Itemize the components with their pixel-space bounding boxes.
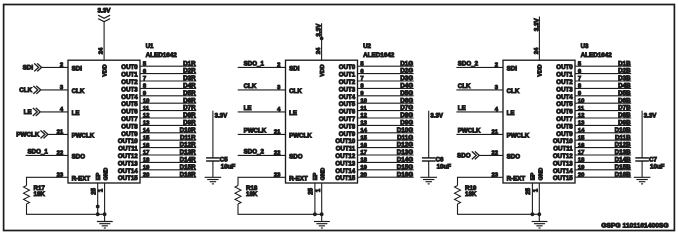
ground symbol below capacitor C7 xyxy=(634,177,651,184)
svg-text:GND: GND xyxy=(104,168,110,181)
net label PWCLK wire to pin 21 xyxy=(456,127,503,135)
wire pin 7 OUT2 to net D3G xyxy=(358,75,414,82)
IC U3 pin name texts xyxy=(507,64,574,182)
svg-text:U3: U3 xyxy=(581,43,589,50)
svg-text:D1G: D1G xyxy=(400,60,413,67)
svg-text:D14R: D14R xyxy=(180,157,196,164)
svg-text:VDD: VDD xyxy=(320,64,326,76)
svg-text:10: 10 xyxy=(143,98,150,104)
IC U1 ALED1642 body xyxy=(68,60,140,183)
svg-text:D7B: D7B xyxy=(618,105,631,112)
input port SDI with chevron, wire to pin 2 xyxy=(23,63,68,72)
svg-text:10: 10 xyxy=(578,98,585,104)
svg-text:24: 24 xyxy=(534,47,540,54)
svg-text:OUT12: OUT12 xyxy=(118,153,138,160)
svg-text:D9G: D9G xyxy=(400,120,413,127)
svg-text:OUT14: OUT14 xyxy=(118,168,138,175)
IC U2 ALED1642 body xyxy=(286,60,358,183)
svg-text:18: 18 xyxy=(143,158,150,164)
svg-text:SDO_1: SDO_1 xyxy=(244,60,265,67)
IC U3 GND pin 1 wire down xyxy=(533,183,539,222)
svg-text:3.3V: 3.3V xyxy=(430,113,443,120)
wire pin 15 OUT10 to net D11R xyxy=(140,134,196,141)
svg-text:PWCLK: PWCLK xyxy=(507,132,530,139)
svg-text:D3B: D3B xyxy=(618,75,631,82)
svg-text:OUT9: OUT9 xyxy=(339,131,356,138)
wire pin 13 OUT8 to net D9B xyxy=(575,120,631,127)
svg-text:20: 20 xyxy=(578,172,585,178)
IC U1 refdes and part number labels xyxy=(146,43,178,59)
ground symbol below IC U1 xyxy=(97,222,113,229)
svg-text:D8R: D8R xyxy=(183,112,196,119)
svg-text:GSPG 1101161400SG: GSPG 1101161400SG xyxy=(601,223,668,230)
svg-text:SDI: SDI xyxy=(507,65,518,72)
svg-text:ALED1642: ALED1642 xyxy=(581,52,613,59)
svg-text:CLK: CLK xyxy=(72,88,85,95)
svg-text:12: 12 xyxy=(578,113,585,119)
wire pin 10 OUT5 to net D6R xyxy=(140,97,196,104)
svg-text:D9B: D9B xyxy=(618,120,631,127)
svg-text:D12R: D12R xyxy=(180,142,196,149)
svg-text:D2G: D2G xyxy=(400,68,413,75)
svg-text:D6B: D6B xyxy=(618,97,631,104)
input port CLK with chevron, wire to pin 3 xyxy=(19,85,68,94)
svg-text:OUT11: OUT11 xyxy=(336,146,356,153)
wire pin 23 R-EXT to resistor R17 xyxy=(27,173,69,179)
svg-text:D13G: D13G xyxy=(397,149,413,156)
svg-text:18: 18 xyxy=(360,158,367,164)
svg-text:22: 22 xyxy=(57,151,64,157)
svg-text:D4B: D4B xyxy=(618,83,631,90)
svg-text:D3R: D3R xyxy=(183,75,196,82)
output port SDO with chevron, wire to pin 22 xyxy=(457,151,503,160)
svg-text:D5B: D5B xyxy=(618,90,631,97)
svg-text:10uF: 10uF xyxy=(221,164,236,171)
svg-text:10: 10 xyxy=(360,98,367,104)
wire pin 11 OUT6 to net D7B xyxy=(575,105,631,112)
svg-text:LE: LE xyxy=(244,105,252,112)
svg-text:11: 11 xyxy=(143,106,150,112)
wire pin 9 OUT4 to net D5G xyxy=(358,90,414,97)
svg-text:D12B: D12B xyxy=(615,142,631,149)
net label CLK wire to pin 3 xyxy=(456,83,503,91)
svg-text:14: 14 xyxy=(360,128,367,134)
wire pin 17 OUT12 to net D13G xyxy=(358,149,414,156)
svg-text:LE: LE xyxy=(24,109,32,116)
wire pin 14 OUT9 to net D10R xyxy=(140,127,196,134)
wire pin 20 OUT15 to net D16B xyxy=(575,171,631,178)
wire pin 5 OUT0 to net D1G xyxy=(358,60,414,67)
svg-text:SDI: SDI xyxy=(72,65,83,72)
svg-text:SDO_2: SDO_2 xyxy=(458,60,479,67)
wire pin 12 OUT7 to net D8B xyxy=(575,112,631,119)
svg-text:D15B: D15B xyxy=(615,164,631,171)
svg-text:D10R: D10R xyxy=(180,127,196,134)
svg-text:OUT13: OUT13 xyxy=(553,160,573,167)
net label LE wire to pin 4 xyxy=(456,105,503,113)
IC U3 refdes and part number labels xyxy=(581,43,613,59)
svg-text:D10G: D10G xyxy=(397,127,413,134)
svg-text:OUT6: OUT6 xyxy=(121,109,138,116)
svg-text:3.3V: 3.3V xyxy=(98,7,112,14)
svg-text:25: 25 xyxy=(526,187,532,194)
wire pin 8 OUT3 to net D4B xyxy=(575,83,631,90)
svg-text:R-EXT: R-EXT xyxy=(72,175,91,182)
svg-text:D8B: D8B xyxy=(618,112,631,119)
wire pin 18 OUT13 to net D14R xyxy=(140,157,196,164)
wire pin 14 OUT9 to net D10G xyxy=(358,127,414,134)
wire pin 5 OUT0 to net D1R xyxy=(140,60,196,67)
svg-text:D11G: D11G xyxy=(397,134,413,141)
wire pin 13 OUT8 to net D9G xyxy=(358,120,414,127)
svg-text:D8G: D8G xyxy=(400,112,413,119)
svg-text:SDO_2: SDO_2 xyxy=(244,148,265,155)
svg-text:12: 12 xyxy=(360,113,367,119)
svg-text:1: 1 xyxy=(533,188,539,192)
svg-text:14: 14 xyxy=(143,128,150,134)
svg-text:D7G: D7G xyxy=(400,105,413,112)
svg-text:PWCLK: PWCLK xyxy=(289,132,312,139)
svg-text:10uF: 10uF xyxy=(437,164,452,171)
svg-text:PWCLK: PWCLK xyxy=(458,127,481,134)
svg-text:R-EXT: R-EXT xyxy=(289,175,308,182)
svg-text:11: 11 xyxy=(360,106,367,112)
capacitor C5 10uF xyxy=(206,111,235,178)
svg-text:OUT3: OUT3 xyxy=(121,86,138,93)
svg-text:10uF: 10uF xyxy=(650,164,665,171)
IC U2 GND pin 1 wire down xyxy=(316,183,322,222)
svg-text:OUT12: OUT12 xyxy=(553,153,573,160)
svg-text:D6R: D6R xyxy=(183,97,196,104)
svg-text:OUT8: OUT8 xyxy=(339,123,356,130)
svg-text:OUT10: OUT10 xyxy=(118,138,138,145)
junction GND wire to ground rail xyxy=(537,212,541,216)
svg-text:PWCLK: PWCLK xyxy=(16,132,40,139)
svg-text:VDD: VDD xyxy=(538,64,544,76)
svg-text:OUT7: OUT7 xyxy=(121,116,138,123)
svg-text:23: 23 xyxy=(491,173,498,179)
svg-text:SDO: SDO xyxy=(289,153,303,160)
svg-text:EP: EP xyxy=(531,173,537,181)
svg-text:16: 16 xyxy=(143,143,150,149)
svg-text:16: 16 xyxy=(360,143,367,149)
svg-text:D5R: D5R xyxy=(183,90,196,97)
svg-text:D2R: D2R xyxy=(183,68,196,75)
IC U1 GND pin 1 wire down xyxy=(99,183,105,222)
svg-text:OUT11: OUT11 xyxy=(118,146,138,153)
net label SDO_1 wire to pin 2 xyxy=(238,60,286,68)
svg-text:D7R: D7R xyxy=(183,105,196,112)
svg-text:D9R: D9R xyxy=(183,120,196,127)
svg-text:OUT0: OUT0 xyxy=(121,64,138,71)
svg-text:OUT2: OUT2 xyxy=(339,79,356,86)
svg-text:OUT5: OUT5 xyxy=(556,101,573,108)
wire pin 18 OUT13 to net D14G xyxy=(358,157,414,164)
svg-text:16: 16 xyxy=(578,143,585,149)
svg-text:23: 23 xyxy=(57,173,64,179)
svg-text:OUT14: OUT14 xyxy=(335,168,355,175)
svg-text:D11B: D11B xyxy=(615,134,631,141)
junction on EP wire xyxy=(96,205,100,209)
svg-text:20: 20 xyxy=(143,172,150,178)
svg-text:OUT10: OUT10 xyxy=(553,138,573,145)
svg-text:17: 17 xyxy=(360,150,367,156)
junction EP wire to ground rail xyxy=(313,212,317,216)
ground symbol below IC U3 xyxy=(532,222,548,229)
wire pin 8 OUT3 to net D4G xyxy=(358,83,414,90)
svg-text:PWCLK: PWCLK xyxy=(72,132,95,139)
capacitor C7 10uF xyxy=(635,111,664,178)
svg-text:OUT12: OUT12 xyxy=(335,153,355,160)
svg-text:D13B: D13B xyxy=(615,149,631,156)
IC U2 EP pin 25 wire down xyxy=(309,183,315,214)
svg-text:EP: EP xyxy=(96,173,102,181)
svg-text:LE: LE xyxy=(507,110,515,117)
svg-text:13: 13 xyxy=(578,121,585,127)
wire pin 12 OUT7 to net D8G xyxy=(358,112,414,119)
ground symbol below capacitor C5 xyxy=(205,177,222,184)
wire pin 9 OUT4 to net D5B xyxy=(575,90,631,97)
ground symbol below capacitor C6 xyxy=(420,177,437,184)
svg-text:GND: GND xyxy=(321,168,327,181)
wire pin 16 OUT11 to net D12B xyxy=(575,142,631,149)
svg-text:R-EXT: R-EXT xyxy=(507,175,526,182)
svg-text:18K: 18K xyxy=(34,191,46,198)
wire pin 10 OUT5 to net D6B xyxy=(575,97,631,104)
svg-text:OUT1: OUT1 xyxy=(556,72,573,79)
wire pin 5 OUT0 to net D1B xyxy=(575,60,631,67)
svg-text:25: 25 xyxy=(91,187,97,194)
svg-text:OUT7: OUT7 xyxy=(339,116,356,123)
IC U2 refdes and part number labels xyxy=(363,43,395,59)
svg-text:SDI: SDI xyxy=(23,65,34,72)
svg-text:13: 13 xyxy=(360,121,367,127)
wire R17 bottom to ground junction xyxy=(26,213,105,215)
net label SDO_2 wire to pin 22 xyxy=(238,148,286,156)
svg-text:CLK: CLK xyxy=(507,88,520,95)
svg-text:OUT2: OUT2 xyxy=(121,79,138,86)
svg-text:24: 24 xyxy=(316,47,322,54)
wire pin 11 OUT6 to net D7R xyxy=(140,105,196,112)
wire pin 17 OUT12 to net D13R xyxy=(140,149,196,156)
capacitor C6 10uF xyxy=(422,111,451,178)
junction GND wire to ground rail xyxy=(320,212,324,216)
svg-text:D14B: D14B xyxy=(615,157,631,164)
wire R18 bottom to ground junction xyxy=(238,213,322,215)
svg-text:11: 11 xyxy=(578,106,585,112)
svg-text:OUT6: OUT6 xyxy=(339,109,356,116)
net label CLK wire to pin 3 xyxy=(238,83,286,91)
svg-text:OUT4: OUT4 xyxy=(339,94,356,101)
svg-text:19: 19 xyxy=(578,165,585,171)
input port LE with chevron, wire to pin 4 xyxy=(24,107,68,116)
wire pin 9 OUT4 to net D5R xyxy=(140,90,196,97)
wire pin 17 OUT12 to net D13B xyxy=(575,149,631,156)
svg-text:ALED1642: ALED1642 xyxy=(146,52,178,59)
wire pin 13 OUT8 to net D9R xyxy=(140,120,196,127)
svg-text:PWCLK: PWCLK xyxy=(244,127,267,134)
svg-text:D10B: D10B xyxy=(615,127,631,134)
wire pin 18 OUT13 to net D14B xyxy=(575,157,631,164)
IC U1 pin name texts xyxy=(72,64,139,182)
svg-text:18: 18 xyxy=(578,158,585,164)
svg-text:VDD: VDD xyxy=(102,64,108,76)
svg-text:D15G: D15G xyxy=(397,164,413,171)
svg-text:U1: U1 xyxy=(146,43,154,50)
resistor R18 18K xyxy=(235,177,258,215)
wire pin 8 OUT3 to net D4R xyxy=(140,83,196,90)
IC U2 pin name texts xyxy=(289,64,356,182)
wire pin 15 OUT10 to net D11G xyxy=(358,134,414,141)
svg-text:D16R: D16R xyxy=(180,171,196,178)
svg-text:D6G: D6G xyxy=(400,97,413,104)
svg-text:CLK: CLK xyxy=(19,87,32,94)
svg-text:SDO: SDO xyxy=(457,153,471,160)
svg-text:D16B: D16B xyxy=(615,171,631,178)
svg-text:13: 13 xyxy=(143,121,150,127)
IC U3 EP pin 25 wire down xyxy=(526,183,532,214)
svg-text:ALED1642: ALED1642 xyxy=(363,52,395,59)
svg-text:23: 23 xyxy=(274,173,281,179)
svg-text:CLK: CLK xyxy=(458,83,471,90)
svg-text:SDO: SDO xyxy=(507,153,521,160)
svg-text:19: 19 xyxy=(143,165,150,171)
svg-text:22: 22 xyxy=(491,151,498,157)
wire pin 16 OUT11 to net D12R xyxy=(140,142,196,149)
svg-text:20: 20 xyxy=(360,172,367,178)
svg-text:OUT1: OUT1 xyxy=(339,72,356,79)
svg-text:CLK: CLK xyxy=(289,88,302,95)
svg-text:D4R: D4R xyxy=(183,83,196,90)
svg-text:OUT0: OUT0 xyxy=(339,64,356,71)
svg-text:D12G: D12G xyxy=(397,142,413,149)
wire pin 6 OUT1 to net D2G xyxy=(358,68,414,75)
svg-text:18K: 18K xyxy=(465,191,477,198)
svg-text:15: 15 xyxy=(578,135,585,141)
svg-text:OUT14: OUT14 xyxy=(553,168,573,175)
svg-text:OUT8: OUT8 xyxy=(556,123,573,130)
svg-text:C5: C5 xyxy=(220,156,228,163)
svg-text:OUT11: OUT11 xyxy=(553,146,573,153)
svg-text:D1R: D1R xyxy=(183,60,196,67)
svg-text:SDO: SDO xyxy=(72,153,86,160)
svg-text:SDO_1: SDO_1 xyxy=(28,148,49,155)
svg-text:LE: LE xyxy=(72,110,80,117)
wire pin 23 R-EXT to resistor R18 xyxy=(238,173,286,179)
svg-text:19: 19 xyxy=(360,165,367,171)
svg-text:OUT9: OUT9 xyxy=(121,131,138,138)
resistor R19 18K xyxy=(455,177,477,215)
junction EP wire to ground rail xyxy=(96,212,100,216)
svg-text:CLK: CLK xyxy=(244,83,257,90)
wire pin 6 OUT1 to net D2B xyxy=(575,68,631,75)
wire pin 14 OUT9 to net D10B xyxy=(575,127,631,134)
svg-text:24: 24 xyxy=(99,47,105,54)
svg-text:21: 21 xyxy=(491,130,498,136)
wire pin 19 OUT14 to net D15B xyxy=(575,164,631,171)
svg-text:GND: GND xyxy=(538,168,544,181)
3.3V power symbol (chevron) feeding VDD pin 24 xyxy=(98,7,112,60)
svg-text:3.3V: 3.3V xyxy=(215,113,228,120)
svg-text:15: 15 xyxy=(143,135,150,141)
svg-text:17: 17 xyxy=(143,150,150,156)
svg-text:D11R: D11R xyxy=(180,134,196,141)
wire pin 7 OUT2 to net D3R xyxy=(140,75,196,82)
svg-text:21: 21 xyxy=(57,130,64,136)
svg-text:OUT13: OUT13 xyxy=(335,160,355,167)
junction GND wire to ground rail xyxy=(103,212,107,216)
svg-text:12: 12 xyxy=(143,113,150,119)
svg-text:OUT15: OUT15 xyxy=(118,175,138,182)
svg-text:OUT4: OUT4 xyxy=(121,94,138,101)
svg-text:SDI: SDI xyxy=(289,65,300,72)
net label SDO_1 wire to pin 22 xyxy=(26,148,68,156)
svg-text:25: 25 xyxy=(309,187,315,194)
svg-text:D3G: D3G xyxy=(400,75,413,82)
svg-text:D13R: D13R xyxy=(180,149,196,156)
svg-text:1: 1 xyxy=(99,188,105,192)
wire R19 bottom to ground junction xyxy=(457,213,539,215)
svg-text:D16G: D16G xyxy=(397,171,413,178)
svg-text:OUT6: OUT6 xyxy=(556,109,573,116)
svg-text:22: 22 xyxy=(274,151,281,157)
svg-text:14: 14 xyxy=(578,128,585,134)
svg-text:OUT5: OUT5 xyxy=(121,101,138,108)
ground symbol below IC U2 xyxy=(314,222,330,229)
svg-text:1: 1 xyxy=(316,188,322,192)
svg-text:OUT10: OUT10 xyxy=(335,138,355,145)
svg-text:D14G: D14G xyxy=(397,157,413,164)
junction EP wire to ground rail xyxy=(531,212,535,216)
svg-text:D5G: D5G xyxy=(400,90,413,97)
svg-text:OUT15: OUT15 xyxy=(553,175,573,182)
wire pin 10 OUT5 to net D6G xyxy=(358,97,414,104)
wire pin 19 OUT14 to net D15R xyxy=(140,164,196,171)
svg-text:D15R: D15R xyxy=(180,164,196,171)
wire pin 7 OUT2 to net D3B xyxy=(575,75,631,82)
svg-text:OUT0: OUT0 xyxy=(556,64,573,71)
svg-text:C7: C7 xyxy=(649,156,657,163)
svg-text:LE: LE xyxy=(458,105,466,112)
svg-text:D4G: D4G xyxy=(400,83,413,90)
net label SDO_2 wire to pin 2 xyxy=(456,60,503,68)
wire pin 11 OUT6 to net D7G xyxy=(358,105,414,112)
wire pin 15 OUT10 to net D11B xyxy=(575,134,631,141)
resistor R17 18K xyxy=(24,177,46,215)
svg-text:OUT3: OUT3 xyxy=(339,86,356,93)
wire pin 6 OUT1 to net D2R xyxy=(140,68,196,75)
svg-text:OUT9: OUT9 xyxy=(556,131,573,138)
wire pin 19 OUT14 to net D15G xyxy=(358,164,414,171)
net label LE wire to pin 4 xyxy=(238,105,286,113)
svg-text:OUT3: OUT3 xyxy=(556,86,573,93)
svg-text:17: 17 xyxy=(578,150,585,156)
svg-text:D2B: D2B xyxy=(618,68,631,75)
svg-text:OUT15: OUT15 xyxy=(335,175,355,182)
wire pin 12 OUT7 to net D8R xyxy=(140,112,196,119)
3.3V power net label feeding VDD pin 24 xyxy=(533,17,540,61)
svg-text:U2: U2 xyxy=(363,43,371,50)
IC U3 ALED1642 body xyxy=(503,60,575,183)
svg-text:21: 21 xyxy=(274,130,281,136)
svg-text:OUT8: OUT8 xyxy=(121,123,138,130)
svg-text:OUT7: OUT7 xyxy=(556,116,573,123)
svg-text:OUT13: OUT13 xyxy=(118,160,138,167)
svg-text:OUT2: OUT2 xyxy=(556,79,573,86)
3.3V power net label feeding VDD pin 24 xyxy=(316,23,324,60)
IC U1 EP pin 25 wire down xyxy=(91,183,97,214)
wire pin 23 R-EXT to resistor R19 xyxy=(458,173,504,179)
